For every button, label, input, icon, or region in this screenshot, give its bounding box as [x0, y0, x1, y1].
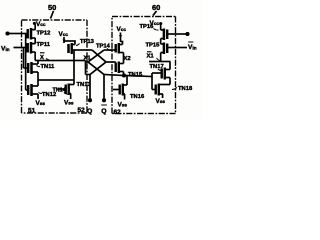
label X1: [84, 56, 92, 62]
wire TP16 source to Vcc: [161, 25, 164, 31]
label Vss block60 left: [118, 102, 128, 109]
label Vcc block60 right: [150, 20, 160, 27]
node Qbar dot: [102, 98, 106, 102]
node phi right terminal: [186, 32, 190, 36]
svg-text:X1: X1: [147, 54, 155, 60]
wire rail TN12 drain: [38, 79, 74, 81]
node Q dot: [88, 98, 92, 102]
node junction dot: [122, 74, 126, 78]
wire TN12 source to Vss: [37, 94, 39, 99]
wire TP15 gate to Vin bar: [167, 47, 187, 49]
label TN12: [42, 92, 56, 98]
label X2: [124, 56, 131, 62]
wire TN16 gate lead: [113, 89, 120, 91]
label 60: [152, 3, 160, 12]
label TP11: [37, 42, 51, 48]
wire Vin vertical to TN11 gate: [24, 48, 29, 69]
wire Vin to TP11 gate: [14, 47, 28, 49]
transistor TP14: [115, 44, 117, 53]
svg-text:TP15: TP15: [146, 43, 161, 49]
wire E horizontal to junction: [104, 75, 152, 77]
label Vcc block60 left: [117, 26, 127, 33]
wire TN11 source down: [37, 72, 39, 80]
svg-text:62: 62: [114, 109, 122, 116]
label Vin: [1, 46, 10, 54]
wire Vcc arrow to TP13: [63, 37, 65, 43]
transistor TP13: [67, 44, 69, 53]
dashed box 50: [22, 20, 88, 113]
wire TP14 source route: [121, 42, 123, 45]
svg-text:TN15: TN15: [128, 72, 143, 78]
label 50: [48, 3, 56, 12]
label Vcc block50 right: [59, 31, 69, 38]
svg-text:TP16: TP16: [140, 24, 155, 30]
wire TN17 source down: [169, 78, 171, 85]
wire phi left: [9, 33, 28, 35]
transistor TN16: [119, 85, 121, 95]
transistor TN15: [115, 63, 117, 73]
wire TP13 source route: [64, 41, 75, 45]
transistor TP11: [27, 43, 29, 53]
leader 50: [51, 11, 54, 19]
label TN14: [53, 88, 66, 94]
label TN11: [41, 64, 56, 70]
svg-text:Vcc: Vcc: [117, 26, 127, 33]
wire phi vertical to TN12 gate: [26, 34, 28, 91]
label Qbar: [101, 108, 106, 115]
label TP15: [146, 43, 161, 49]
svg-text:Vcc: Vcc: [59, 31, 69, 38]
svg-text:Vcc: Vcc: [36, 21, 46, 28]
label 51: [28, 108, 36, 115]
svg-text:TP13: TP13: [80, 39, 95, 45]
node Vcc dot block60 right: [159, 22, 162, 25]
transistor TN12: [27, 85, 29, 95]
label TN13: [77, 82, 92, 88]
label TN16: [130, 94, 145, 100]
label Q: [87, 108, 92, 115]
wire cross A: TP13 rail to TN15 gate: [92, 50, 116, 62]
label Vin bar: [188, 44, 197, 52]
wire TN18 source to Vss: [159, 94, 163, 98]
wire TP16 gate to phi right: [167, 33, 186, 35]
wire TP11 drain down to X rail: [34, 52, 36, 61]
svg-text:50: 50: [48, 3, 56, 12]
wire TN13 source to Vss: [69, 94, 71, 100]
transistor TP16: [166, 30, 168, 40]
wire TP12 source to Vcc: [34, 25, 36, 30]
label TP14: [96, 44, 111, 50]
svg-text:TN17: TN17: [150, 64, 164, 70]
svg-text:X2: X2: [124, 56, 131, 62]
wire cross B: left vertex to TP14 gate: [88, 50, 116, 62]
svg-text:60: 60: [152, 3, 160, 12]
wire TN16 drain up to junction: [123, 76, 127, 85]
wire TN17 drain up to X1bar rail: [169, 62, 171, 70]
label Vss block60 right: [156, 98, 166, 105]
svg-text:51: 51: [28, 108, 36, 115]
wire TN17 TN18 gate feed: [152, 73, 162, 90]
wire left vertex stub and jog: [86, 61, 89, 75]
label 62: [114, 109, 122, 116]
svg-text:Q: Q: [101, 108, 106, 115]
wire output Qbar: [103, 75, 105, 100]
svg-text:Vss: Vss: [36, 100, 46, 107]
wire TP15 drain down to X1bar rail: [160, 53, 162, 62]
label TP13: [80, 39, 95, 45]
svg-text:Q: Q: [87, 108, 92, 115]
wire cross F: right vertex to Q tap: [86, 62, 107, 75]
label TP12: [37, 31, 51, 37]
svg-text:TN11: TN11: [41, 64, 56, 70]
svg-text:TP11: TP11: [37, 42, 51, 48]
wire node X1bar rail: [149, 61, 171, 63]
svg-text:TP12: TP12: [37, 31, 51, 37]
svg-text:TP14: TP14: [96, 44, 111, 50]
wire TN16 source to Vss: [123, 94, 125, 100]
transistor TP12: [27, 29, 29, 39]
transistor TN17: [161, 69, 163, 79]
wire vertical TP13 drain to TN13 drain: [73, 50, 75, 85]
svg-text:X: X: [40, 55, 44, 61]
transistor TP15: [166, 44, 168, 54]
transistor TN18: [155, 85, 157, 95]
label Vss block50 right: [64, 100, 74, 107]
label TN18: [178, 86, 193, 92]
wire TP12 drain to TP11 source: [34, 38, 36, 44]
wire TP13 drain rail y50: [72, 49, 92, 51]
label 52: [78, 107, 86, 114]
wire TP14 drain down to TN15: [123, 53, 125, 64]
label TP16: [140, 24, 155, 30]
wire TN18 drain stub: [159, 84, 170, 86]
svg-text:TN14: TN14: [53, 88, 66, 94]
transistor TN13: [65, 85, 67, 95]
svg-text:TN16: TN16: [130, 94, 145, 100]
wire Vcc arrow to TP14: [120, 33, 122, 43]
label TN17: [150, 64, 164, 70]
wire TN12 drain up: [37, 80, 39, 86]
wire TN13 gate lead: [58, 88, 66, 90]
dashed box 60: [112, 17, 176, 114]
transistor TN11: [27, 63, 29, 73]
svg-text:Vss: Vss: [118, 102, 128, 109]
wire TP16 drain to TP15 source: [160, 39, 162, 45]
svg-text:TN18: TN18: [178, 86, 193, 92]
svg-text:Vss: Vss: [156, 98, 166, 105]
wire TN11 drain up to X rail: [37, 61, 39, 65]
label X bar: [40, 55, 44, 61]
label X1 bar: [147, 54, 155, 60]
node phi left terminal: [6, 32, 10, 36]
label TN15: [128, 72, 143, 78]
wire output Q: [89, 75, 91, 100]
svg-text:TN13: TN13: [77, 82, 92, 88]
wire TN15 source to junction: [123, 72, 125, 76]
svg-text:Vss: Vss: [64, 100, 74, 107]
leader 60: [153, 11, 157, 16]
node Vcc dot block50 left: [33, 22, 36, 25]
wire cross E: left vertex to Qbar tap: [88, 62, 104, 75]
svg-text:52: 52: [78, 107, 86, 114]
wire TN13 drain stub: [69, 84, 74, 86]
wire node X rail: [35, 60, 85, 62]
label Vss block50 left: [36, 100, 46, 107]
label Vcc block50 left: [36, 21, 46, 28]
